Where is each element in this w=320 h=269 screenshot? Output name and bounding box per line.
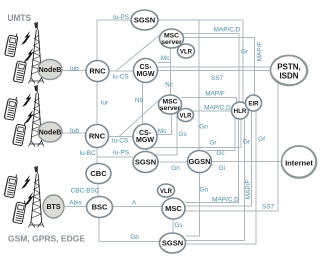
CBC — [86, 164, 111, 184]
radio bolt 5 — [21, 175, 31, 189]
svg-text:MGW: MGW — [136, 137, 154, 144]
radio bolt 4 — [24, 110, 34, 124]
svg-text:Gn: Gn — [199, 187, 208, 194]
svg-text:Iu-CS: Iu-CS — [112, 138, 128, 145]
radio bolt 2 — [24, 48, 34, 62]
wire Mc corner MSC server1 to CSMGW1 — [158, 48, 171, 63]
svg-text:RNC: RNC — [89, 132, 106, 141]
EIR — [246, 95, 262, 111]
wire Gc GGSN to HLR — [206, 116, 235, 151]
svg-text:Gs: Gs — [178, 131, 186, 138]
svg-text:MAP/C,D: MAP/C,D — [214, 27, 241, 34]
wire Iu-PS RNC2 branch to SGSN mid — [97, 156, 133, 158]
svg-text:Gr: Gr — [209, 140, 217, 147]
svg-text:Gn: Gn — [171, 165, 180, 172]
MSC server 2 — [159, 95, 182, 114]
antenna tower 2 — [29, 85, 45, 147]
svg-text:server: server — [161, 39, 182, 46]
svg-text:Gb: Gb — [130, 234, 139, 241]
wire NodeB2-RNC2 (Iub) — [60, 132, 86, 134]
radio bolt 3 — [22, 93, 32, 107]
svg-text:HLR: HLR — [234, 108, 247, 115]
wire Abis BTS-BSC — [63, 206, 87, 208]
svg-text:Iu-CS: Iu-CS — [112, 74, 128, 81]
wire Gf SGSN bottom to EIR — [185, 111, 256, 244]
svg-text:Iub: Iub — [70, 128, 79, 135]
wire Gr SGSN bottom to HLR — [186, 120, 245, 241]
wire Gn vertical SGSN top rail to GGSN — [198, 20, 200, 151]
wire Gn GGSN down to SGSN bottom — [186, 172, 200, 236]
wire diagonal RNC1 line to MSC server 1 — [116, 34, 161, 71]
wire A BSC-MSC — [113, 206, 163, 208]
mobile phone group 3 — [2, 172, 20, 199]
wire CSMGW1 to PSTN double line (SS7) — [158, 66, 272, 68]
svg-text:PSTN,: PSTN, — [277, 63, 301, 72]
svg-text:NodeB: NodeB — [39, 130, 62, 137]
wire NodeB1-RNC1 (Iub) — [60, 70, 87, 72]
wire Gi GGSN - Internet — [212, 161, 282, 163]
HLR — [232, 102, 249, 119]
wire rail y37.5 MSC server1 to EIR (MAP/F) — [183, 38, 255, 96]
svg-text:Iur: Iur — [101, 100, 109, 107]
wire CBC-BSC vertical — [97, 184, 99, 198]
MSC server 1 — [160, 29, 184, 48]
MSC bottom — [162, 198, 185, 219]
svg-text:MSC: MSC — [165, 204, 182, 213]
wire Nc MSC server1 to MSC server2 — [170, 63, 172, 96]
svg-text:Gc: Gc — [216, 150, 225, 157]
svg-text:SGSN: SGSN — [135, 158, 156, 167]
mobile phone group 2 — [2, 95, 20, 122]
svg-text:EIR: EIR — [248, 101, 259, 108]
wire RNC1-CSMGW1 (Iu-CS) — [108, 70, 134, 72]
RNC 2 — [86, 125, 109, 148]
wire Gb BSC down to SGSN bottom — [99, 218, 160, 242]
wire MAP/C,D VLR2 to HLR — [193, 110, 232, 112]
svg-text:NodeB: NodeB — [39, 67, 62, 74]
VLR 1 — [178, 44, 195, 58]
VLR bottom — [158, 184, 175, 197]
svg-text:server: server — [160, 105, 181, 112]
svg-text:Iub: Iub — [70, 66, 79, 73]
svg-text:VLR: VLR — [180, 114, 193, 120]
svg-text:MAP/F: MAP/F — [245, 180, 252, 200]
RNC 1 — [86, 61, 109, 82]
svg-text:Nc: Nc — [165, 82, 174, 89]
svg-text:MAP/C,D: MAP/C,D — [204, 105, 231, 112]
SGSN bottom — [160, 233, 186, 253]
NodeB 1 — [38, 60, 62, 80]
radio bolt 1 — [21, 31, 31, 45]
wire RNC2-CSMGW2 (Iu-CS) — [108, 136, 134, 138]
svg-text:MAP/F: MAP/F — [257, 42, 264, 62]
radio bolt 6 — [24, 192, 34, 206]
svg-text:RNC: RNC — [89, 67, 106, 76]
svg-text:Gr: Gr — [241, 49, 249, 56]
GGSN — [188, 151, 212, 173]
wire Iu-BC RNC2 down to CBC — [96, 148, 98, 165]
svg-text:BSC: BSC — [92, 203, 108, 212]
svg-text:Gn: Gn — [199, 124, 208, 131]
svg-text:A: A — [132, 200, 137, 207]
svg-text:Gi: Gi — [219, 165, 225, 172]
svg-text:Gf: Gf — [258, 136, 265, 143]
svg-text:CBC-BSC: CBC-BSC — [71, 188, 100, 195]
BTS — [43, 195, 64, 218]
svg-text:MAP/C,D: MAP/C,D — [212, 197, 239, 204]
wire Gr rail SGSN mid to HLR — [147, 119, 242, 152]
wire Iur RNC1-RNC2 — [96, 81, 98, 125]
wire MAP/C,D MSC bottom to HLR — [185, 120, 239, 203]
wire second line to PSTN — [158, 70, 271, 72]
wire rail y33.5 MSC server1 to HLR (MAP/C,D) — [182, 34, 239, 103]
PSTN, ISDN cloud — [269, 53, 309, 87]
svg-text:Abis: Abis — [69, 200, 81, 207]
wire Gn SGSN mid - GGSN — [158, 161, 188, 163]
SGSN mid — [133, 152, 158, 173]
svg-text:ISDN: ISDN — [279, 72, 298, 81]
svg-text:Gs: Gs — [174, 222, 182, 229]
svg-text:Internet: Internet — [285, 159, 313, 168]
antenna tower 3 — [29, 166, 45, 228]
svg-text:SGSN: SGSN — [134, 16, 155, 25]
svg-text:Iu-PS: Iu-PS — [113, 150, 129, 157]
CS-MGW 1 — [134, 59, 158, 83]
svg-text:SS7: SS7 — [262, 204, 275, 211]
wire SS7 MSC bottom to PSTN — [185, 82, 278, 211]
Internet cloud — [279, 143, 318, 179]
svg-text:CS-: CS- — [139, 64, 152, 71]
svg-text:MGW: MGW — [137, 71, 155, 78]
SGSN top — [131, 10, 158, 30]
VLR 2 — [178, 109, 194, 122]
wire RNC1 up + Iu-PS to SGSN top — [97, 20, 131, 62]
svg-text:VLR: VLR — [180, 50, 193, 56]
antenna tower 1 — [29, 22, 45, 84]
svg-text:SS7: SS7 — [211, 75, 224, 82]
svg-text:Mc: Mc — [161, 55, 170, 62]
wire MAP/F MSC bottom to EIR — [185, 111, 252, 206]
svg-text:GGSN: GGSN — [188, 157, 210, 166]
mobile phone group 1 — [2, 31, 20, 58]
svg-text:CBC: CBC — [90, 169, 107, 178]
wire Gs MSC bottom - SGSN bottom — [172, 219, 174, 234]
wire MAP/F MSC server2 to HLR — [182, 98, 237, 104]
wire Gs MSC server2 to SGSN mid — [155, 113, 178, 156]
svg-text:Iu-PS: Iu-PS — [113, 14, 129, 21]
svg-text:UMTS: UMTS — [8, 13, 32, 23]
wire Nb CSMGW1-CSMGW2 — [142, 82, 144, 125]
wire diagonal RNC2 line to MSC server 2 — [119, 100, 159, 137]
svg-text:CS-: CS- — [139, 130, 152, 137]
svg-text:MAP/F: MAP/F — [205, 91, 225, 98]
svg-text:BTS: BTS — [47, 204, 61, 211]
svg-text:Nb: Nb — [135, 97, 144, 104]
svg-text:SGSN: SGSN — [162, 239, 183, 248]
BSC — [87, 197, 113, 218]
NodeB 2 — [38, 122, 62, 142]
svg-text:VLR: VLR — [160, 189, 173, 195]
svg-text:Iu-BC: Iu-BC — [79, 150, 96, 157]
wire Mc corner MSC server2 to CSMGW2 — [157, 115, 172, 135]
CS-MGW 2 — [133, 124, 157, 149]
svg-text:Gr: Gr — [243, 139, 251, 146]
svg-text:GSM, GPRS, EDGE: GSM, GPRS, EDGE — [8, 234, 85, 244]
svg-text:Mc: Mc — [158, 128, 167, 135]
wire rail y20 SGSN to HLR (Gr) — [158, 20, 243, 103]
